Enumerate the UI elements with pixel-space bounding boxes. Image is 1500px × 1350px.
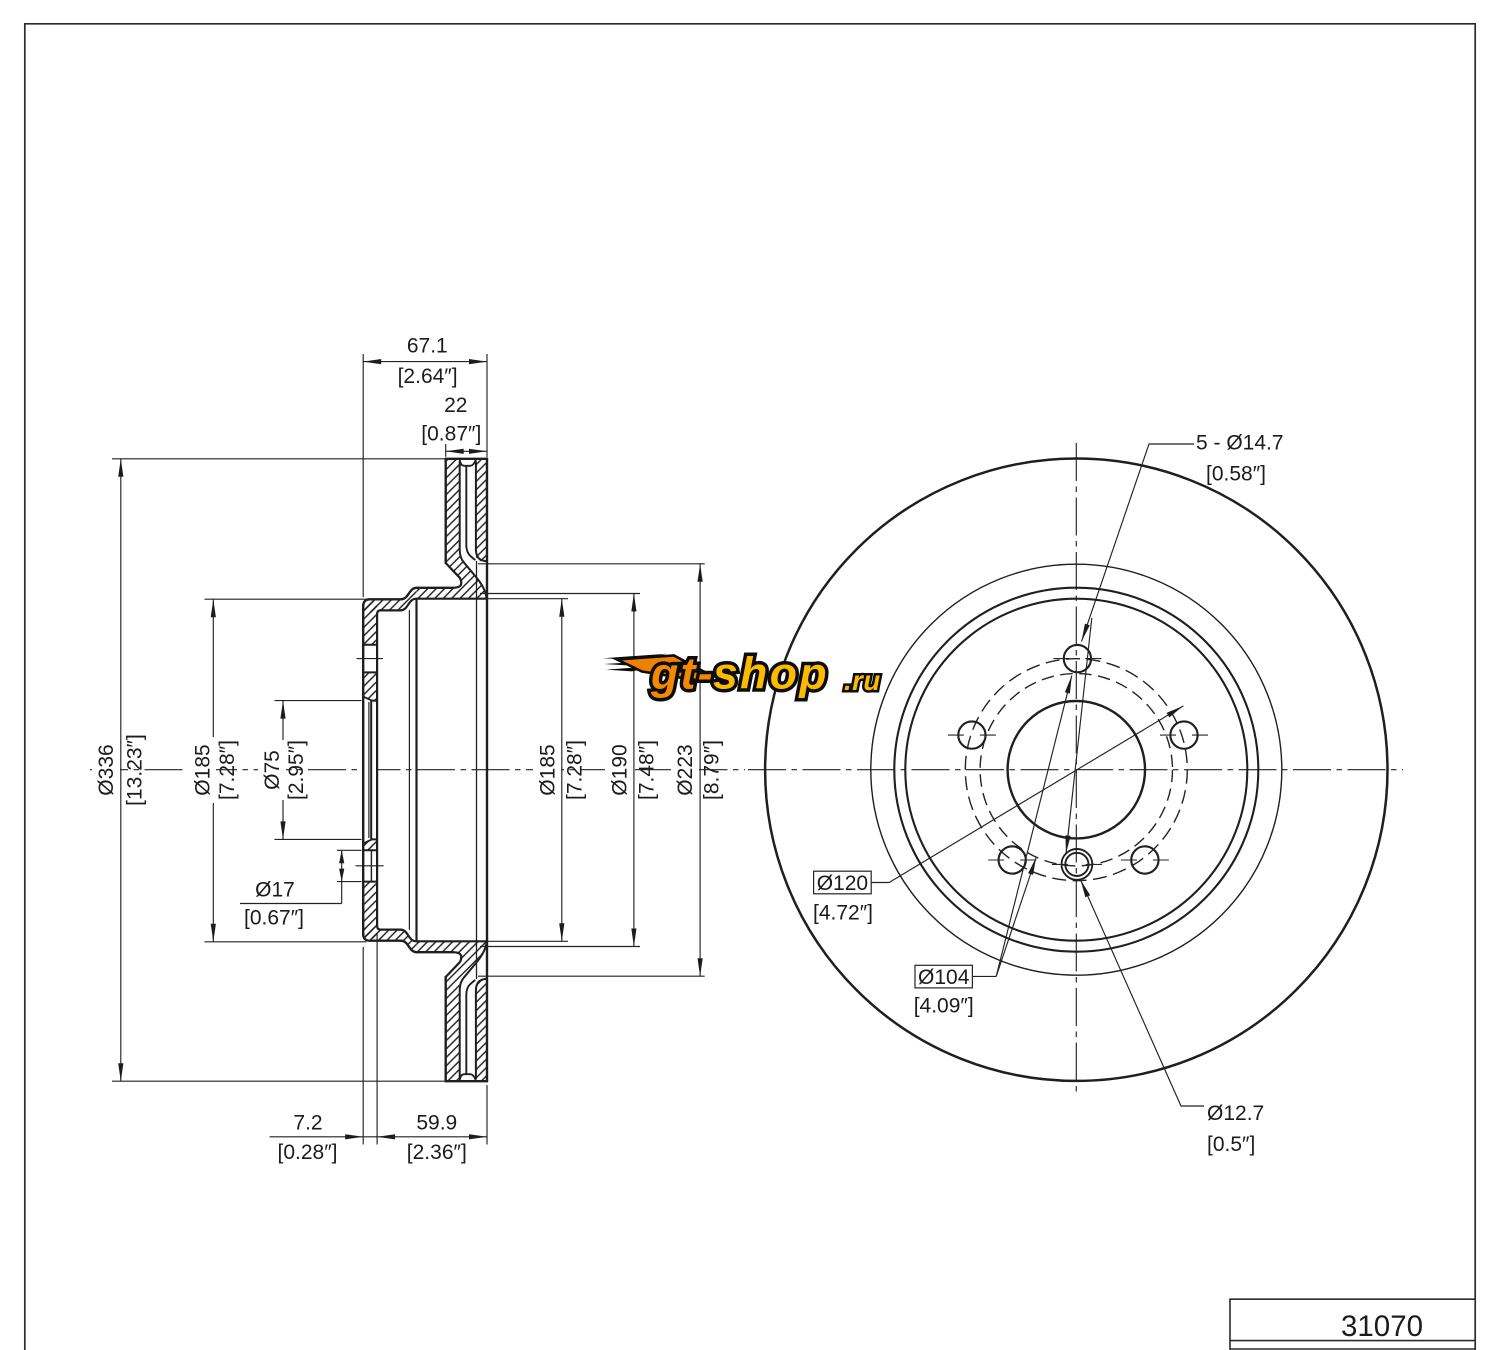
svg-text:Ø336: Ø336 — [95, 744, 118, 795]
svg-text:Ø190: Ø190 — [608, 744, 631, 795]
bore silhouette thick — [370, 702, 372, 839]
svg-text:Ø223: Ø223 — [674, 744, 697, 795]
drum inner flat2 bottom — [417, 940, 487, 942]
svg-text:67.1: 67.1 — [407, 334, 448, 357]
inboard plate faces — [445, 459, 447, 563]
dim Ø185 left — [212, 599, 214, 942]
svg-text:Ø12.7: Ø12.7 — [1207, 1102, 1264, 1125]
drum outer flat2 top — [417, 587, 453, 589]
leader Ø12.7 — [1081, 880, 1205, 1106]
stud hole 2 — [1170, 721, 1197, 748]
svg-text:31070: 31070 — [1341, 1310, 1423, 1343]
outboard face — [486, 459, 488, 1081]
Ø17 hole edges (sect) — [364, 849, 377, 851]
mount face corner top — [377, 610, 380, 614]
bore silhouette thin — [368, 703, 370, 838]
leader Ø104 (two arrows) — [972, 975, 996, 977]
drum outer flat1 top — [370, 598, 401, 600]
web diagonal A top — [446, 563, 462, 588]
section hatching: outboard plate bottom — [476, 979, 487, 1081]
hat flange back face — [362, 605, 364, 935]
bolt circle Ø120 dashed — [965, 659, 1187, 881]
drum outer flat2 bottom — [417, 951, 453, 953]
mount face corner bottom — [377, 926, 380, 930]
Ø17 centermark (sect) — [356, 865, 383, 867]
circle Ø104 dashed — [980, 674, 1172, 866]
section hatching: drum wall top — [363, 588, 417, 613]
dim Ø75 — [282, 701, 284, 840]
svg-text:Ø17: Ø17 — [255, 879, 295, 902]
stud hole 4 — [1131, 846, 1158, 873]
braking band inner circle Ø223 — [871, 564, 1282, 975]
leader line through hub — [1066, 618, 1092, 854]
svg-text:5 - Ø14.7: 5 - Ø14.7 — [1196, 432, 1284, 455]
svg-text:[2.64″]: [2.64″] — [398, 365, 458, 388]
center bore void (sect) — [363, 697, 377, 844]
section hatching: inboard plate + web + drum band top — [417, 459, 486, 599]
bore edge bottom — [372, 838, 377, 840]
section hatching: flange — [363, 602, 377, 939]
flange mount face — [376, 614, 378, 926]
vent channel right wall bottom — [476, 979, 487, 1079]
leader 5-Ø14.7 — [1082, 444, 1195, 642]
drum inner flat1 top — [380, 609, 400, 611]
centerline horizontal (both views) — [90, 769, 745, 771]
svg-text:[0.5″]: [0.5″] — [1207, 1133, 1255, 1156]
svg-text:Ø75: Ø75 — [261, 750, 284, 790]
svg-text:[7.28″]: [7.28″] — [564, 740, 587, 800]
gt-shop.ru logo — [603, 650, 881, 699]
svg-text:gt-shop: gt-shop — [650, 650, 829, 699]
drum inner flat1 bottom — [380, 928, 400, 930]
stud hole 1 — [1064, 645, 1091, 672]
svg-text:[7.28″]: [7.28″] — [216, 740, 239, 800]
drum step silhouette thick — [415, 600, 417, 941]
bore chamfer bottom — [363, 839, 372, 843]
section hatching: inboard plate + web + drum band bottom — [417, 941, 486, 1081]
vent channel left wall top — [460, 462, 487, 598]
drum circle Ø185 — [905, 599, 1247, 941]
outboard plate inner silhouette — [476, 562, 478, 979]
stud hole (sect) — [364, 645, 377, 673]
leader Ø120 — [871, 706, 1183, 883]
svg-text:[0.28″]: [0.28″] — [278, 1141, 338, 1164]
center bore Ø75 — [1008, 701, 1145, 838]
stud hole edges (sect) — [364, 644, 377, 646]
vent inlet notch bottom — [460, 1074, 476, 1081]
drum step circle — [894, 588, 1258, 952]
centerline vertical (right view) — [1075, 443, 1077, 1097]
section hatching: drum wall bottom — [363, 927, 417, 952]
set screw hole Ø12.7 — [1062, 849, 1093, 880]
vent channel right wall top — [476, 462, 487, 562]
drum outer flat1 bottom — [370, 940, 401, 942]
dim Ø336 — [120, 459, 122, 1081]
svg-text:7.2: 7.2 — [293, 1111, 322, 1134]
vent channel left wall bottom — [460, 943, 487, 1079]
stud hole centermark (sect) — [357, 658, 383, 660]
stud hole 3 — [958, 721, 985, 748]
drum inner S bottom — [400, 930, 416, 942]
svg-text:[0.87″]: [0.87″] — [421, 423, 481, 446]
stud hole 5 — [999, 846, 1026, 873]
svg-text:[4.72″]: [4.72″] — [813, 901, 873, 924]
svg-text:.ru: .ru — [844, 665, 881, 696]
dim Ø185 right — [478, 598, 568, 600]
drum step silhouette thin — [408, 611, 410, 930]
svg-text:[2.36″]: [2.36″] — [407, 1141, 467, 1164]
dim Ø223 — [478, 563, 705, 565]
svg-text:Ø185: Ø185 — [192, 744, 215, 795]
drum inner flat2 top — [417, 598, 487, 600]
dim 67.1 — [363, 361, 487, 363]
dim Ø190 — [480, 593, 640, 595]
bore edge top — [372, 700, 377, 702]
svg-text:Ø120: Ø120 — [817, 872, 868, 895]
flange corner top — [363, 599, 370, 606]
vane edge bottom — [466, 980, 474, 1073]
svg-text:[7.48″]: [7.48″] — [635, 740, 658, 800]
svg-text:[0.67″]: [0.67″] — [244, 907, 304, 930]
section hatching: outboard plate top — [476, 459, 487, 561]
svg-text:Ø185: Ø185 — [537, 744, 560, 795]
vane edge top — [466, 466, 474, 559]
drum inner S top — [400, 599, 416, 611]
dim 7.2 / 59.9 — [270, 1136, 487, 1138]
parking hole Ø17 (sect) — [364, 850, 377, 881]
svg-text:Ø104: Ø104 — [918, 966, 970, 989]
flange corner bottom — [363, 934, 370, 941]
web diagonal A bottom — [446, 952, 462, 977]
Ø17 hole far wall — [370, 850, 372, 881]
vent inlet notch top — [460, 459, 476, 466]
bore chamfer top — [363, 697, 372, 701]
svg-text:[2.95″]: [2.95″] — [285, 740, 308, 800]
drum outer S bottom — [401, 941, 417, 953]
svg-text:[4.09″]: [4.09″] — [914, 995, 974, 1018]
title block table — [1230, 1299, 1475, 1350]
svg-text:[8.79″]: [8.79″] — [701, 740, 724, 800]
svg-text:[0.58″]: [0.58″] — [1206, 463, 1266, 486]
dim 22 — [446, 450, 487, 452]
rotor faces — [446, 458, 487, 460]
drum outer S top — [401, 588, 417, 600]
svg-text:[13.23″]: [13.23″] — [124, 734, 147, 806]
svg-text:59.9: 59.9 — [416, 1111, 457, 1134]
disc outer circle — [765, 459, 1387, 1081]
svg-text:22: 22 — [444, 394, 467, 417]
dim Ø17 — [341, 850, 343, 881]
